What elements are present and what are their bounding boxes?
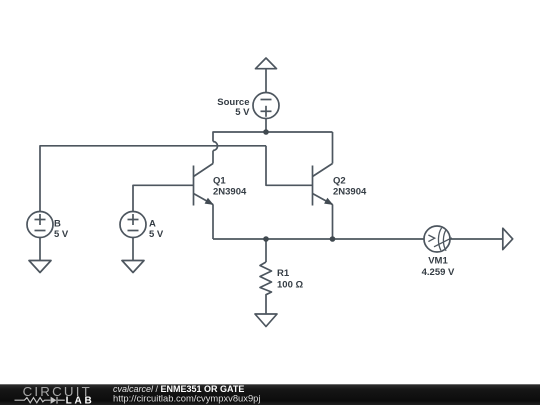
- svg-text:R1: R1: [277, 268, 290, 279]
- svg-text:2N3904: 2N3904: [333, 186, 367, 197]
- svg-text:5 V: 5 V: [149, 229, 164, 240]
- svg-text:Q1: Q1: [213, 176, 226, 187]
- svg-text:VM1: VM1: [428, 256, 448, 267]
- svg-text:2N3904: 2N3904: [213, 186, 247, 197]
- svg-text:5 V: 5 V: [54, 229, 69, 240]
- svg-text:Q2: Q2: [333, 176, 346, 187]
- svg-text:100 Ω: 100 Ω: [277, 280, 303, 291]
- svg-text:5 V: 5 V: [235, 107, 250, 118]
- svg-text:http://circuitlab.com/cvympxv8: http://circuitlab.com/cvympxv8ux9pj: [113, 393, 260, 404]
- svg-text:LAB: LAB: [66, 396, 95, 405]
- svg-text:4.259 V: 4.259 V: [422, 267, 455, 278]
